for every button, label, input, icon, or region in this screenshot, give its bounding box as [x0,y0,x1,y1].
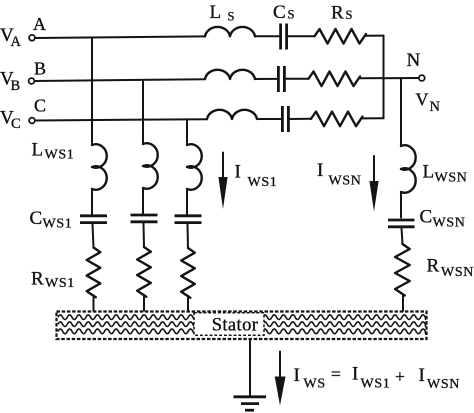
svg-text:B: B [34,59,46,79]
svg-text:C: C [273,2,286,23]
svg-text:WS: WS [304,377,326,392]
svg-text:WSN: WSN [433,216,466,231]
svg-text:S: S [288,8,295,22]
svg-text:B: B [11,78,21,94]
svg-text:I: I [419,365,425,386]
svg-text:N: N [430,99,441,115]
svg-text:WS1: WS1 [43,217,73,232]
svg-text:WSN: WSN [427,377,460,392]
svg-text:R: R [331,3,344,24]
svg-text:WSN: WSN [441,265,474,280]
svg-text:L: L [423,162,435,183]
svg-text:L: L [210,2,222,23]
svg-text:+: + [395,367,405,387]
svg-text:R: R [31,269,44,290]
svg-text:I: I [235,162,241,183]
svg-text:I: I [317,160,323,181]
svg-text:WS1: WS1 [248,175,278,190]
svg-text:WS1: WS1 [361,377,391,392]
svg-text:A: A [33,14,46,34]
svg-text:L: L [32,140,44,161]
svg-text:I: I [294,365,300,386]
svg-text:I: I [352,364,358,385]
svg-text:WS1: WS1 [45,276,75,291]
svg-text:A: A [11,34,22,50]
svg-text:S: S [228,10,235,24]
svg-text:C: C [30,208,43,229]
svg-text:WS1: WS1 [45,148,75,163]
svg-text:R: R [427,256,440,277]
svg-text:S: S [346,8,353,22]
svg-text:WSN: WSN [329,174,362,189]
svg-text:C: C [420,207,433,228]
svg-text:V: V [416,90,429,110]
svg-text:N: N [407,50,421,71]
svg-text:WSN: WSN [435,171,468,186]
svg-text:C: C [34,96,46,116]
svg-text:=: = [331,364,341,384]
svg-text:Stator: Stator [212,316,259,336]
svg-text:C: C [11,116,21,132]
